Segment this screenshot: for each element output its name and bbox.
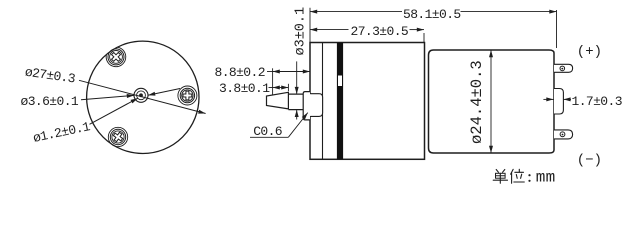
- svg-text:C0.6: C0.6: [253, 124, 282, 139]
- dim 1.7 right arrow: [563, 98, 571, 100]
- leader d1.2: [90, 98, 138, 124]
- screw Q top-left: [108, 49, 124, 65]
- inlet slot opening (erases body edge): [309, 94, 311, 115]
- note: unit label 单位 glyph: [493, 170, 507, 184]
- terminal (+) tab: [554, 64, 573, 72]
- terminal (-) tab: [554, 130, 573, 139]
- rear bearing boss: [554, 89, 563, 115]
- dim line 27.3: [310, 29, 349, 31]
- dim 58.1 extension left: [309, 8, 311, 43]
- dim 3.8 extension: [287, 84, 289, 91]
- dim line 58.1: [310, 11, 402, 13]
- leader d3.6 left arrow: [81, 95, 134, 99]
- svg-text:ø3.6±0.1: ø3.6±0.1: [21, 94, 79, 109]
- dim d24.4 line: [490, 50, 492, 153]
- svg-text:ø3±0.1: ø3±0.1: [293, 7, 308, 56]
- dim 3.8 line: [269, 87, 273, 89]
- dim 58.1 extension right: [556, 10, 558, 48]
- svg-text:8.8±0.2: 8.8±0.2: [215, 65, 265, 80]
- d3.6 right arrow: [148, 89, 180, 96]
- svg-text:ø24.4±0.3: ø24.4±0.3: [468, 60, 486, 144]
- unit label colon: [528, 174, 530, 182]
- leader d27 line through center: [79, 80, 206, 113]
- inlet slot inside body: [310, 94, 323, 117]
- dim 8.8 line: [267, 71, 273, 73]
- svg-text:1.7±0.3: 1.7±0.3: [572, 94, 622, 109]
- screw pocket arc right: [178, 86, 197, 105]
- svg-text:(−): (−): [577, 153, 602, 169]
- clamp notch: [338, 76, 342, 87]
- svg-text:(+): (+): [577, 44, 602, 60]
- left view: motor front face: [87, 41, 199, 153]
- dim d3 upper arrow: [296, 61, 298, 94]
- dim 27.3 extension right: [423, 33, 425, 43]
- screw bottom-left: [110, 129, 125, 144]
- motor body circle d27: [87, 41, 199, 153]
- pump body rectangle: [310, 43, 425, 160]
- nozzle barb tip: [267, 92, 289, 109]
- svg-text:58.1±0.5: 58.1±0.5: [403, 7, 461, 22]
- screw right: [180, 88, 194, 102]
- screw pocket arc top: [106, 47, 126, 66]
- dim d3 lower arrow: [296, 110, 298, 120]
- svg-text:mm: mm: [536, 168, 556, 186]
- dim 8.8 extension: [272, 68, 274, 95]
- clamp black band: [337, 43, 343, 160]
- nozzle stem: [288, 94, 303, 110]
- shaft hub circles: [134, 88, 148, 102]
- screw pocket arc bottom: [108, 127, 127, 146]
- svg-text:3.8±0.1: 3.8±0.1: [219, 81, 270, 96]
- svg-text:27.3±0.5: 27.3±0.5: [351, 24, 409, 39]
- pump face split line: [322, 43, 324, 160]
- motor body side: [429, 50, 555, 153]
- leader C0.6: [250, 136, 288, 138]
- unit label 位 glyph: [511, 169, 525, 183]
- nozzle block: [303, 92, 310, 120]
- dim 1.7 left arrow: [543, 98, 553, 100]
